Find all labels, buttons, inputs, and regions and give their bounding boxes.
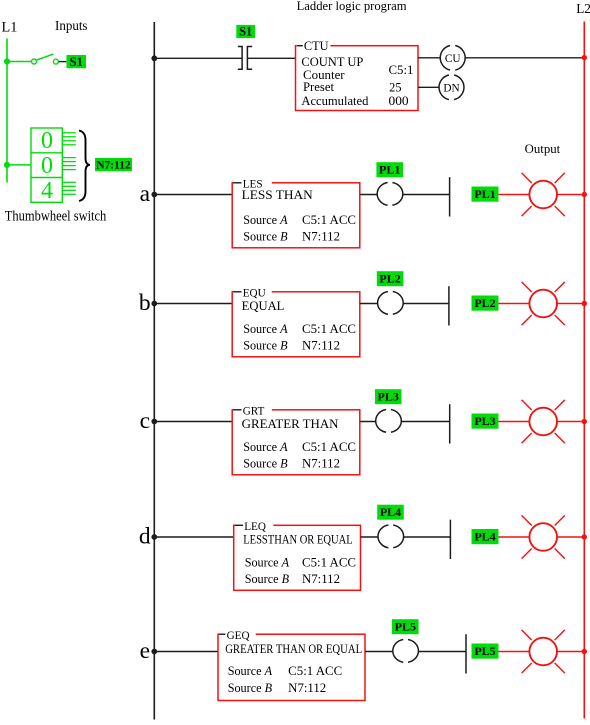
label S1 (input switch) (67, 55, 87, 69)
svg-text:Source B: Source B (245, 572, 290, 586)
svg-text:GRT: GRT (243, 405, 265, 417)
svg-text:Source B: Source B (243, 457, 288, 471)
svg-text:Source A: Source A (243, 440, 288, 454)
svg-text:GEQ: GEQ (227, 630, 250, 642)
svg-text:Ladder logic program: Ladder logic program (297, 0, 407, 13)
counter CTU box C5:1 (296, 39, 419, 111)
svg-text:Source B: Source B (243, 230, 288, 244)
contact S1 (examine-if-closed) (238, 47, 252, 70)
output coil PL4 (378, 525, 404, 548)
svg-text:L1: L1 (2, 20, 18, 36)
svg-text:Source A: Source A (243, 213, 288, 227)
svg-text:PL1: PL1 (379, 163, 400, 177)
wire left rail to contact S1 (154, 57, 242, 59)
svg-text:Accumulated: Accumulated (301, 94, 368, 108)
junction dot lamp PL5 at L2 (582, 649, 587, 654)
wire contact S1 to CTU box (247, 57, 295, 59)
wire lamp to right rail (557, 303, 584, 305)
wire LEQ box to coil PL4 (361, 536, 379, 538)
svg-text:C5:1 ACC: C5:1 ACC (302, 322, 356, 336)
label PL4 (above coil) (377, 505, 404, 520)
svg-text:e: e (140, 638, 150, 664)
svg-text:PL5: PL5 (395, 620, 416, 634)
label PL4 (lamp circuit) (472, 529, 499, 544)
svg-text:Output: Output (525, 142, 561, 156)
wire PL1 label to lamp (499, 194, 530, 196)
svg-text:4: 4 (41, 178, 53, 204)
thumbwheel switch body (31, 128, 62, 202)
svg-text:c: c (140, 408, 150, 434)
lamp PL1 (522, 173, 565, 216)
wire coil to interface bar (401, 421, 449, 423)
junction dot lamp PL2 at L2 (582, 301, 587, 306)
svg-text:PL1: PL1 (474, 187, 495, 201)
label PL5 (lamp circuit) (472, 644, 499, 659)
wire PL3 label to lamp (499, 421, 530, 423)
lamp PL2 (522, 282, 565, 325)
wire GRT box to coil PL3 (360, 421, 376, 423)
svg-text:b: b (139, 290, 151, 316)
wire left rail to LES box (154, 194, 232, 196)
svg-text:Source A: Source A (228, 664, 273, 678)
svg-text:0: 0 (41, 128, 53, 154)
junction dot CU at L2 (582, 55, 587, 60)
wire PL2 label to lamp (499, 303, 530, 305)
switch S1 right terminal (53, 59, 58, 64)
label PL5 (above coil) (392, 619, 419, 634)
comparison box GEQ (218, 629, 365, 701)
svg-text:000: 000 (389, 94, 409, 108)
left power rail (153, 22, 155, 720)
wire lamp to right rail (557, 421, 584, 423)
label S1 (contact) (236, 25, 255, 39)
label PL1 (lamp circuit) (472, 187, 499, 202)
comparison box EQU (232, 286, 360, 357)
svg-text:N7:112: N7:112 (302, 457, 340, 471)
svg-text:PL2: PL2 (379, 272, 400, 286)
junction dot rung c on left rail (151, 419, 157, 425)
svg-text:C5:1: C5:1 (389, 63, 414, 77)
label PL2 (above coil) (377, 271, 404, 286)
junction dot lamp PL1 at L2 (582, 192, 587, 197)
wire coil to interface bar (403, 194, 450, 196)
wire left rail to LEQ box (154, 536, 233, 538)
junction dot rung d on left rail (151, 534, 157, 540)
svg-text:EQUAL: EQUAL (242, 299, 285, 313)
comparison box GRT (232, 404, 360, 475)
junction dot rung a on left rail (151, 192, 157, 198)
svg-text:N7:112: N7:112 (302, 339, 340, 353)
svg-text:PL4: PL4 (474, 530, 495, 544)
brace for N7:112 (79, 131, 90, 202)
wire coil to interface bar (404, 536, 451, 538)
wire L1 rail to thumbwheel (7, 164, 31, 166)
switch S1 blade (36, 54, 53, 60)
junction dot rung1 on left rail (151, 55, 157, 61)
junction dot L1-thumbwheel (4, 162, 10, 168)
output interface bar rung a (449, 177, 451, 216)
label PL3 (above coil) (375, 389, 402, 404)
output coil PL3 (376, 410, 402, 433)
svg-text:C5:1 ACC: C5:1 ACC (302, 213, 356, 227)
svg-text:LESSTHAN OR EQUAL: LESSTHAN OR EQUAL (243, 532, 353, 546)
wire switch to S1 label (59, 61, 67, 63)
svg-text:Thumbwheel switch: Thumbwheel switch (5, 209, 107, 225)
svg-text:Source B: Source B (243, 339, 288, 353)
output coil PL2 (378, 292, 404, 315)
svg-text:PL5: PL5 (474, 644, 495, 658)
svg-text:EQU: EQU (243, 287, 266, 299)
wire left rail to GRT box (154, 421, 232, 423)
coil DN (439, 75, 464, 100)
svg-text:C5:1 ACC: C5:1 ACC (302, 440, 356, 454)
svg-text:a: a (140, 181, 151, 207)
svg-text:N7:112: N7:112 (302, 230, 340, 244)
wire GEQ box to coil PL5 (365, 651, 393, 653)
output interface bar rung b (448, 286, 450, 325)
coil CU (440, 46, 465, 71)
svg-text:N7:112: N7:112 (302, 572, 340, 586)
svg-text:C5:1 ACC: C5:1 ACC (302, 555, 356, 569)
output interface bar rung c (449, 404, 451, 443)
output coil PL5 (393, 640, 419, 663)
thumbwheel BCD output lines (cell 1) (62, 133, 76, 145)
wire PL5 label to lamp (499, 651, 530, 653)
wire CTU to DN coil (418, 86, 439, 88)
lamp PL3 (522, 400, 565, 443)
svg-text:PL2: PL2 (474, 296, 495, 310)
wire EQU box to coil PL2 (360, 303, 378, 305)
label N7:112 (95, 158, 132, 171)
junction dot lamp PL4 at L2 (582, 534, 587, 539)
switch S1 left terminal (32, 59, 37, 64)
svg-text:CU: CU (445, 53, 461, 65)
svg-text:LESS THAN: LESS THAN (242, 188, 313, 202)
wire L1 rail to switch S1 (7, 61, 31, 63)
junction dot rung e on left rail (151, 649, 157, 655)
lamp PL4 (522, 515, 565, 558)
right power rail L2 (red) (583, 22, 585, 719)
svg-text:CTU: CTU (304, 39, 329, 53)
svg-text:PL4: PL4 (380, 505, 401, 519)
svg-text:N7:112: N7:112 (288, 681, 326, 695)
svg-text:LEQ: LEQ (244, 521, 266, 533)
svg-text:Source A: Source A (245, 555, 290, 569)
svg-text:Preset: Preset (303, 80, 335, 94)
output interface bar rung d (449, 520, 451, 559)
svg-text:Source A: Source A (243, 322, 288, 336)
wire PL4 label to lamp (499, 536, 530, 538)
svg-text:GREATER THAN OR EQUAL: GREATER THAN OR EQUAL (225, 642, 362, 656)
svg-text:Inputs: Inputs (55, 18, 88, 33)
label PL3 (lamp circuit) (472, 414, 499, 429)
svg-text:DN: DN (443, 82, 459, 94)
svg-text:25: 25 (389, 80, 401, 94)
wire CU coil to right rail (465, 57, 584, 59)
lamp PL5 (522, 630, 565, 673)
junction dot lamp PL3 at L2 (582, 419, 587, 424)
wire LES box to coil PL1 (360, 194, 377, 196)
svg-text:L2: L2 (576, 1, 590, 16)
comparison box LES (232, 177, 360, 248)
svg-text:COUNT UP: COUNT UP (301, 55, 363, 69)
label PL1 (above coil) (376, 162, 403, 177)
wire lamp to right rail (557, 536, 584, 538)
junction dot L1-S1 (4, 58, 10, 64)
junction dot rung b on left rail (151, 301, 157, 307)
svg-text:GREATER THAN: GREATER THAN (242, 417, 339, 431)
comparison box LEQ (234, 520, 361, 591)
wire coil to interface bar (418, 651, 466, 653)
output interface bar rung e (465, 634, 467, 673)
thumbwheel BCD output lines (cell 3) (62, 182, 76, 194)
wire left rail to EQU box (154, 303, 232, 305)
wire left rail to GEQ box (154, 651, 218, 653)
svg-text:S1: S1 (70, 55, 83, 69)
svg-text:C5:1 ACC: C5:1 ACC (288, 664, 342, 678)
svg-text:Source B: Source B (228, 681, 273, 695)
label PL2 (lamp circuit) (472, 296, 499, 311)
wire CTU to CU coil (418, 57, 440, 59)
thumbwheel BCD output lines (cell 2) (62, 158, 76, 170)
svg-text:PL3: PL3 (474, 414, 495, 428)
output coil PL1 (377, 183, 403, 206)
svg-text:0: 0 (41, 153, 53, 179)
wire coil to interface bar (403, 303, 449, 305)
svg-text:N7:112: N7:112 (96, 159, 131, 171)
svg-text:S1: S1 (239, 25, 252, 39)
wire lamp to right rail (557, 651, 584, 653)
svg-text:PL3: PL3 (378, 390, 399, 404)
wire lamp to right rail (557, 194, 584, 196)
rail L1 (green input rail) (6, 39, 8, 183)
svg-text:d: d (139, 523, 151, 549)
